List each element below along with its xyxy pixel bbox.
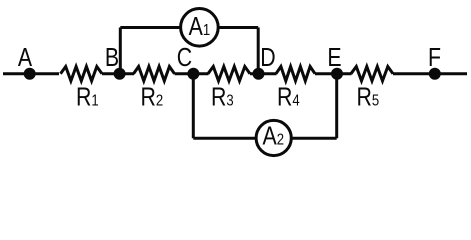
wire top branch right horizontal: [218, 26, 258, 29]
svg-text:D: D: [260, 43, 275, 73]
wire bottom branch right horizontal: [292, 137, 337, 140]
svg-text:E: E: [327, 43, 341, 73]
svg-text:R4: R4: [277, 82, 300, 112]
svg-text:R3: R3: [211, 82, 234, 112]
wire bottom branch E drop: [335, 74, 338, 139]
node D dot: [253, 68, 265, 80]
svg-text:R1: R1: [76, 82, 99, 112]
svg-text:B: B: [105, 43, 119, 73]
node F dot: [429, 68, 441, 80]
wire R3 to R4: [250, 72, 277, 75]
wire R1 to R2: [102, 72, 134, 75]
svg-text:F: F: [428, 43, 441, 73]
node C dot: [187, 68, 199, 80]
node B dot: [114, 68, 126, 80]
resistor R1: [61, 67, 103, 81]
resistor R2: [134, 67, 175, 81]
wire R2 to R3: [175, 72, 209, 75]
wire bottom branch left horizontal: [193, 137, 256, 140]
resistor R4: [276, 67, 315, 81]
wire R4 to R5: [315, 72, 352, 75]
svg-text:A: A: [18, 43, 32, 73]
resistor R3: [208, 67, 250, 81]
svg-text:R2: R2: [141, 82, 164, 112]
svg-text:C: C: [177, 43, 192, 73]
wire main left segment: [3, 72, 59, 75]
ammeter A1 circle: [181, 9, 219, 47]
wire top branch D riser: [257, 28, 260, 74]
svg-text:R5: R5: [357, 82, 380, 112]
wire top branch left horizontal: [120, 26, 181, 29]
node A dot: [24, 68, 36, 80]
wire bottom branch C drop: [192, 74, 195, 139]
ammeter A2 circle: [256, 120, 291, 155]
wire main right segment: [393, 72, 467, 75]
node E dot: [331, 68, 343, 80]
resistor R5: [351, 67, 393, 81]
wire top branch B riser: [119, 28, 122, 74]
